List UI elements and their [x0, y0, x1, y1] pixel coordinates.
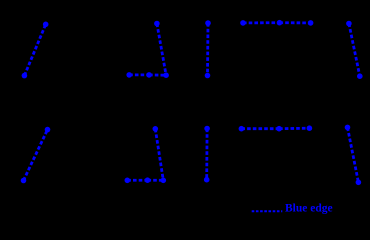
edge B2 middle-right — [148, 179, 164, 182]
node B2 middle — [145, 177, 151, 183]
node B2 right — [161, 178, 167, 184]
node E1 top — [346, 21, 352, 27]
edge D2 left-middle — [241, 127, 279, 130]
node D1 right — [308, 20, 314, 26]
node C2 bottom — [204, 177, 210, 183]
edge B1 top-right vertical — [157, 24, 166, 76]
node B1 top — [154, 21, 160, 27]
edge B2 top-right vertical — [155, 129, 163, 181]
node E2 bottom — [356, 180, 362, 186]
node D2 right — [307, 125, 313, 131]
node A1 top — [43, 22, 49, 28]
edge A1 (top-left diagonal) — [24, 24, 45, 75]
node C1 bottom — [205, 73, 211, 79]
node D1 middle — [277, 20, 283, 26]
node C2 top — [204, 126, 210, 132]
edge B1 left-middle — [129, 74, 149, 77]
edge D1 left-middle — [243, 21, 280, 24]
node A2 top — [45, 127, 51, 133]
node B1 right — [163, 72, 169, 78]
edge D1 middle-right — [280, 21, 311, 24]
node C1 top — [205, 20, 211, 26]
node E1 bottom — [357, 73, 363, 79]
edge A2 (bottom-left diagonal) — [24, 130, 48, 181]
edge C2 vertical — [205, 129, 208, 180]
edge B1 middle-right — [149, 74, 166, 77]
edge E1 (top-right diagonal) — [349, 24, 360, 77]
node E2 top — [345, 125, 351, 131]
edge C1 vertical — [206, 23, 209, 75]
node B1 left — [126, 72, 132, 78]
svg-text:Blue edge: Blue edge — [285, 203, 333, 215]
edge E2 (bottom-right diagonal) — [348, 127, 359, 182]
node D1 left — [240, 20, 246, 26]
node D2 left — [239, 126, 245, 132]
node B2 left — [125, 178, 131, 184]
node A2 bottom — [21, 178, 27, 184]
node D2 middle — [276, 126, 282, 132]
edge B2 left-middle — [127, 179, 147, 182]
edge D2 middle-right — [279, 127, 309, 130]
node A1 bottom — [22, 73, 28, 79]
legend dashed line sample — [252, 210, 283, 212]
node B1 middle — [146, 72, 152, 78]
node B2 top — [153, 126, 159, 132]
